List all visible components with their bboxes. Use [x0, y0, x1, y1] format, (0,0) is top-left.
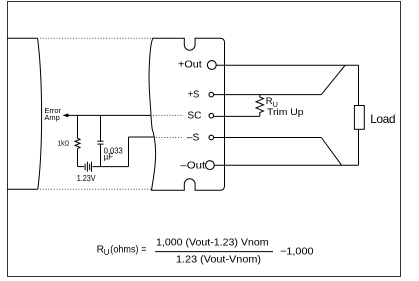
svg-text:+S: +S — [188, 90, 200, 101]
svg-text:−1,000: −1,000 — [280, 247, 314, 258]
svg-text:Trim Up: Trim Up — [267, 107, 304, 118]
svg-text:SC: SC — [187, 111, 201, 122]
svg-text:(ohms) =: (ohms) = — [110, 244, 146, 255]
svg-text:1,000 (Vout-1.23) Vnom: 1,000 (Vout-1.23) Vnom — [156, 238, 269, 249]
svg-text:Load: Load — [370, 112, 395, 126]
svg-text:Amp: Amp — [44, 113, 59, 122]
svg-text:U: U — [104, 248, 110, 257]
svg-text:1.23V: 1.23V — [77, 174, 96, 183]
svg-text:1kΩ: 1kΩ — [58, 138, 70, 147]
svg-text:1.23 (Vout-Vnom): 1.23 (Vout-Vnom) — [176, 255, 261, 266]
svg-text:µF: µF — [104, 153, 114, 162]
svg-text:–S: –S — [187, 133, 200, 144]
svg-text:+Out: +Out — [178, 60, 202, 71]
svg-text:–Out: –Out — [180, 161, 205, 172]
